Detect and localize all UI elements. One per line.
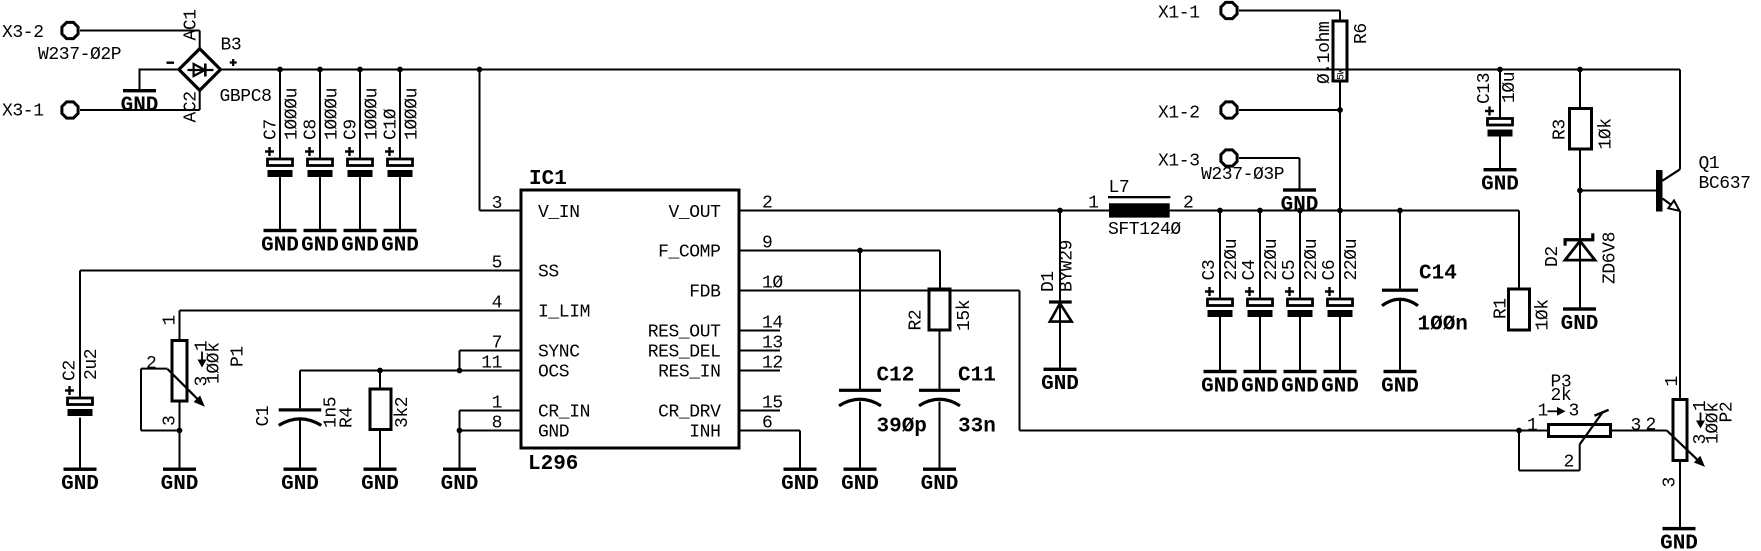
svg-text:C5: C5 xyxy=(1280,260,1300,281)
svg-text:GND: GND xyxy=(841,473,879,496)
svg-text:CR_IN: CR_IN xyxy=(538,403,590,423)
svg-text:L296: L296 xyxy=(528,453,578,476)
svg-text:BYW29: BYW29 xyxy=(1058,240,1078,292)
svg-text:GND: GND xyxy=(1281,194,1319,217)
svg-text:1Øk: 1Øk xyxy=(1534,299,1554,330)
svg-text:C3: C3 xyxy=(1200,260,1220,281)
svg-text:1: 1 xyxy=(1088,194,1098,214)
svg-text:22Øu: 22Øu xyxy=(1342,239,1362,281)
svg-text:FDB: FDB xyxy=(689,283,721,303)
svg-text:GND: GND xyxy=(1321,375,1359,398)
svg-text:BC637: BC637 xyxy=(1699,174,1751,194)
svg-text:7: 7 xyxy=(492,334,502,354)
svg-text:3k2: 3k2 xyxy=(393,397,413,428)
svg-text:I_LIM: I_LIM xyxy=(538,303,590,323)
svg-text:8: 8 xyxy=(492,414,502,434)
svg-text:W237-Ø2P: W237-Ø2P xyxy=(38,45,121,65)
svg-text:GND: GND xyxy=(361,473,399,496)
svg-text:1: 1 xyxy=(492,394,502,414)
svg-text:C11: C11 xyxy=(958,365,996,388)
svg-text:GND: GND xyxy=(781,473,819,496)
svg-text:GND: GND xyxy=(1561,313,1599,336)
svg-text:GND: GND xyxy=(1041,373,1079,396)
svg-text:X3-1: X3-1 xyxy=(2,102,44,122)
svg-text:RES_IN: RES_IN xyxy=(658,363,720,383)
svg-text:1ØØØu: 1ØØØu xyxy=(402,88,422,140)
svg-text:1ØØn: 1ØØn xyxy=(1418,314,1468,337)
svg-text:5W: 5W xyxy=(1337,68,1348,80)
svg-text:C6: C6 xyxy=(1320,260,1340,281)
svg-text:RES_OUT: RES_OUT xyxy=(648,323,721,343)
svg-text:15: 15 xyxy=(762,394,783,414)
svg-text:Q1: Q1 xyxy=(1699,154,1720,174)
svg-text:C13: C13 xyxy=(1475,73,1495,104)
svg-text:GBPC8: GBPC8 xyxy=(220,87,272,107)
svg-text:3: 3 xyxy=(161,416,181,426)
svg-text:B3: B3 xyxy=(221,36,242,56)
svg-text:R2: R2 xyxy=(907,310,927,331)
svg-text:R1: R1 xyxy=(1492,298,1512,319)
svg-text:R4: R4 xyxy=(337,407,357,428)
svg-text:GND: GND xyxy=(538,423,569,443)
svg-text:3: 3 xyxy=(1569,402,1579,422)
svg-text:AC2: AC2 xyxy=(182,91,202,122)
svg-text:GND: GND xyxy=(441,473,479,496)
svg-text:X1-2: X1-2 xyxy=(1158,104,1200,124)
svg-text:R6: R6 xyxy=(1352,23,1372,44)
svg-text:C9: C9 xyxy=(342,119,362,140)
svg-text:D2: D2 xyxy=(1543,246,1563,267)
svg-text:3: 3 xyxy=(492,194,502,214)
svg-text:P2: P2 xyxy=(1718,402,1738,423)
svg-text:GND: GND xyxy=(281,473,319,496)
svg-text:4: 4 xyxy=(492,294,502,314)
svg-text:15k: 15k xyxy=(955,300,975,331)
svg-text:6: 6 xyxy=(762,414,772,434)
svg-text:V_IN: V_IN xyxy=(538,203,580,223)
svg-text:GND: GND xyxy=(1201,375,1239,398)
svg-text:W237-Ø3P: W237-Ø3P xyxy=(1201,165,1284,185)
svg-text:SFT124Ø: SFT124Ø xyxy=(1108,220,1181,240)
svg-text:GND: GND xyxy=(1281,375,1319,398)
svg-text:C1Ø: C1Ø xyxy=(382,108,402,140)
svg-text:L7: L7 xyxy=(1109,178,1130,198)
svg-text:SS: SS xyxy=(538,263,559,283)
svg-text:GND: GND xyxy=(341,234,379,257)
svg-text:13: 13 xyxy=(762,334,783,354)
svg-text:GND: GND xyxy=(1381,375,1419,398)
svg-text:GND: GND xyxy=(381,234,419,257)
svg-text:1: 1 xyxy=(161,315,181,325)
svg-text:GND: GND xyxy=(121,95,159,118)
svg-text:GND: GND xyxy=(301,234,339,257)
svg-text:OCS: OCS xyxy=(538,363,569,383)
svg-text:1ØØØu: 1ØØØu xyxy=(322,88,342,140)
svg-text:Ø.1ohm: Ø.1ohm xyxy=(1315,22,1335,84)
svg-text:CR_DRV: CR_DRV xyxy=(658,403,721,423)
svg-text:D1: D1 xyxy=(1039,271,1059,292)
svg-text:2: 2 xyxy=(1183,194,1193,214)
svg-text:GND: GND xyxy=(921,473,959,496)
svg-text:14: 14 xyxy=(762,314,783,334)
svg-text:1: 1 xyxy=(1663,376,1683,386)
svg-text:39Øp: 39Øp xyxy=(877,416,927,439)
svg-text:1: 1 xyxy=(1538,402,1548,422)
svg-text:X1-3: X1-3 xyxy=(1158,152,1200,172)
svg-text:AC1: AC1 xyxy=(182,9,202,40)
svg-text:V_OUT: V_OUT xyxy=(668,203,721,223)
svg-text:GND: GND xyxy=(161,473,199,496)
svg-text:9: 9 xyxy=(762,234,772,254)
svg-text:GND: GND xyxy=(261,234,299,257)
svg-text:2u2: 2u2 xyxy=(82,349,102,380)
svg-text:GND: GND xyxy=(1660,532,1698,551)
svg-text:22Øu: 22Øu xyxy=(1222,239,1242,281)
svg-text:12: 12 xyxy=(762,354,783,374)
svg-text:3: 3 xyxy=(1631,416,1641,436)
svg-text:22Øu: 22Øu xyxy=(1302,239,1322,281)
svg-text:1ØØk: 1ØØk xyxy=(205,342,225,384)
svg-text:P1: P1 xyxy=(229,346,249,367)
svg-text:R3: R3 xyxy=(1551,119,1571,140)
svg-text:1ØØØu: 1ØØØu xyxy=(362,88,382,140)
svg-text:1Ø: 1Ø xyxy=(762,274,783,294)
svg-text:5: 5 xyxy=(492,254,502,274)
svg-text:2: 2 xyxy=(146,354,156,374)
svg-text:C12: C12 xyxy=(877,365,915,388)
svg-text:1Øk: 1Øk xyxy=(1597,118,1617,149)
svg-text:22Øu: 22Øu xyxy=(1262,239,1282,281)
svg-text:GND: GND xyxy=(1481,174,1519,197)
svg-text:IC1: IC1 xyxy=(529,168,567,191)
svg-text:C7: C7 xyxy=(262,119,282,140)
svg-text:C2: C2 xyxy=(61,360,81,381)
svg-text:33n: 33n xyxy=(958,416,996,439)
svg-text:1Øu: 1Øu xyxy=(1500,72,1520,103)
svg-text:1: 1 xyxy=(1527,416,1537,436)
svg-text:INH: INH xyxy=(689,423,720,443)
svg-text:C1: C1 xyxy=(254,406,274,427)
svg-text:RES_DEL: RES_DEL xyxy=(648,343,721,363)
svg-text:C8: C8 xyxy=(302,119,322,140)
svg-text:3: 3 xyxy=(1661,477,1681,487)
svg-text:GND: GND xyxy=(61,473,99,496)
svg-text:ZD6V8: ZD6V8 xyxy=(1601,232,1621,284)
svg-text:GND: GND xyxy=(1241,375,1279,398)
svg-text:X3-2: X3-2 xyxy=(2,23,44,43)
svg-text:C4: C4 xyxy=(1240,260,1260,281)
svg-text:1ØØØu: 1ØØØu xyxy=(282,88,302,140)
svg-text:2: 2 xyxy=(762,194,772,214)
svg-text:2: 2 xyxy=(1646,416,1656,436)
svg-text:2: 2 xyxy=(1564,453,1574,473)
svg-text:11: 11 xyxy=(481,354,502,374)
svg-text:SYNC: SYNC xyxy=(538,343,580,363)
svg-text:C14: C14 xyxy=(1419,263,1457,286)
svg-text:X1-1: X1-1 xyxy=(1158,4,1200,24)
svg-text:F_COMP: F_COMP xyxy=(658,243,720,263)
